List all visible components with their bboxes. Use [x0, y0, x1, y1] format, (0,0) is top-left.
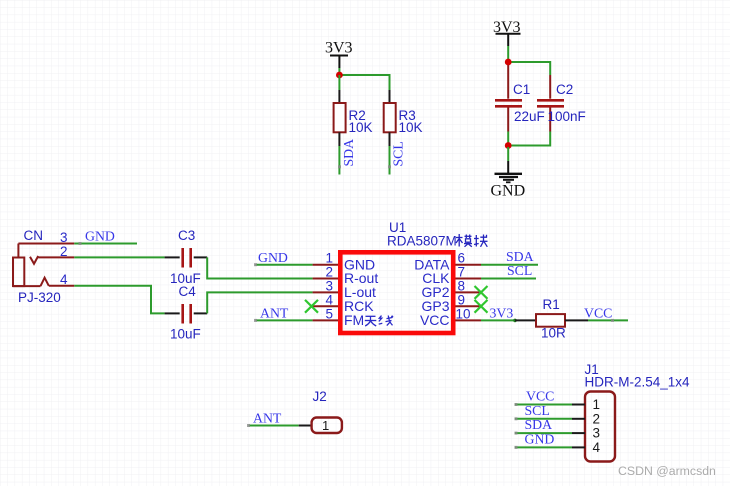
svg-text:ANT: ANT	[253, 411, 282, 426]
junction dot	[336, 72, 343, 79]
ground GND	[491, 161, 526, 200]
wire R3 to net SCL	[389, 146, 391, 175]
wire C3 to U1 pin2	[207, 257, 312, 278]
op module U1 RDA5807M	[340, 220, 487, 333]
pin 8 lead	[456, 291, 482, 293]
resistor R2	[334, 90, 373, 146]
node GND (U1)	[254, 250, 288, 266]
svg-text:7: 7	[458, 265, 466, 280]
svg-text:3V3: 3V3	[325, 40, 353, 57]
pin 6 lead	[456, 264, 482, 266]
no-connect X pin 9	[475, 300, 488, 313]
svg-text:1: 1	[593, 397, 601, 412]
pin 10 lead	[456, 319, 482, 321]
wire C2 bottom to junction	[508, 132, 550, 146]
connector CN (PJ-320)	[13, 228, 74, 305]
no-connect X pin 8	[475, 286, 488, 299]
pin 1 lead	[313, 264, 338, 266]
svg-text:R1: R1	[543, 297, 560, 312]
wire VCC to J1 pin1	[515, 404, 572, 406]
svg-text:1: 1	[326, 251, 334, 266]
svg-text:4: 4	[60, 272, 68, 287]
pin 2 lead	[313, 278, 338, 280]
pin 3 lead	[313, 291, 338, 293]
svg-text:10R: 10R	[541, 326, 566, 341]
resistor R1	[515, 297, 588, 341]
模	[458, 234, 460, 247]
pin 4 lead	[313, 305, 338, 307]
svg-text:2: 2	[593, 411, 601, 426]
node VCC (J1)	[515, 389, 555, 407]
svg-text:CN: CN	[24, 228, 44, 243]
wire CN pin2 to C3	[74, 256, 164, 258]
svg-text:3: 3	[60, 230, 68, 245]
svg-text:CSDN @armcsdn: CSDN @armcsdn	[618, 464, 716, 478]
value label 模块 (module)	[456, 234, 488, 247]
connector J1	[572, 362, 690, 462]
天	[366, 315, 376, 317]
svg-text:C1: C1	[513, 82, 530, 97]
no-connect X pin 4	[305, 300, 318, 313]
wire R2 to net SDA	[338, 146, 340, 175]
junction dot bottom	[505, 142, 512, 149]
svg-text:GND: GND	[491, 183, 526, 200]
svg-text:6: 6	[458, 251, 466, 266]
wire ANT to J2	[249, 425, 299, 427]
wire CN pin4 to C4	[74, 286, 164, 314]
svg-text:FM: FM	[344, 312, 364, 328]
svg-text:VCC: VCC	[420, 312, 450, 328]
connector J2	[299, 389, 342, 433]
junction dot top	[505, 59, 512, 66]
svg-text:22uF: 22uF	[514, 109, 545, 124]
svg-text:SCL: SCL	[507, 263, 532, 278]
capacitor C3	[165, 228, 208, 286]
power symbol 3V3 (C1/C2 rail)	[493, 19, 521, 46]
wire U1 pin7 to SCL	[481, 278, 536, 280]
pin 5 lead	[313, 319, 338, 321]
node ANT (J2)	[247, 411, 282, 428]
wire SCL to J1 pin2	[515, 418, 572, 420]
svg-text:C4: C4	[179, 284, 197, 299]
svg-text:GND: GND	[85, 229, 115, 244]
wire C1 bottom to junction	[507, 132, 509, 148]
wire junction to ground	[507, 147, 509, 161]
pin 7 lead	[456, 278, 482, 280]
svg-text:3: 3	[326, 279, 334, 294]
wire 3V3 to junction	[507, 46, 509, 62]
wire junction down to R2	[338, 75, 340, 90]
node SDA	[338, 139, 356, 168]
wire junction to R3 branch	[339, 75, 389, 90]
svg-text:PJ-320: PJ-320	[18, 290, 61, 305]
svg-text:10uF: 10uF	[170, 327, 201, 342]
svg-text:HDR-M-2.54_1x4: HDR-M-2.54_1x4	[585, 375, 691, 390]
svg-text:1: 1	[322, 418, 329, 433]
wire U1 pin10 to R1	[481, 319, 515, 321]
svg-text:ANT: ANT	[260, 305, 289, 320]
svg-text:100nF: 100nF	[548, 109, 586, 124]
wire GND to J1 pin4	[515, 446, 572, 448]
svg-text:SDA: SDA	[506, 249, 534, 264]
wire R1 to VCC	[588, 319, 628, 321]
node ANT (U1)	[254, 305, 289, 322]
junction 3V3 net	[513, 319, 517, 323]
svg-text:C2: C2	[556, 82, 573, 97]
pin 9 lead	[456, 305, 482, 307]
svg-text:9: 9	[458, 293, 466, 308]
svg-text:SDA: SDA	[525, 417, 553, 432]
wire ANT to U1 pin5	[256, 319, 313, 321]
wire 3V3 rail to junction	[338, 68, 340, 75]
svg-text:2: 2	[326, 265, 334, 280]
svg-text:SCL: SCL	[525, 403, 550, 418]
svg-text:3V3: 3V3	[490, 305, 514, 320]
svg-text:SCL: SCL	[391, 141, 406, 166]
svg-text:3: 3	[593, 426, 601, 441]
svg-text:5: 5	[326, 307, 334, 322]
capacitor C1	[495, 62, 545, 132]
svg-text:4: 4	[593, 440, 601, 455]
node SDA (J1)	[515, 417, 553, 435]
wire C4 to U1 pin3	[207, 292, 312, 313]
wire CN pin3 to GND label	[74, 243, 137, 245]
node SCL	[388, 141, 406, 168]
svg-text:C3: C3	[178, 228, 195, 243]
线	[379, 316, 382, 322]
svg-text:2: 2	[60, 244, 68, 259]
svg-text:GND: GND	[525, 431, 555, 446]
wire U1 pin6 to SDA	[481, 264, 538, 266]
capacitor C2	[537, 75, 586, 132]
node SCL (J1)	[515, 403, 550, 421]
wire GND to U1 pin1	[256, 264, 313, 266]
svg-text:10K: 10K	[349, 120, 373, 135]
svg-text:10K: 10K	[399, 120, 423, 135]
svg-text:8: 8	[458, 279, 466, 294]
node VCC (R1)	[584, 305, 614, 322]
wire SDA to J1 pin3	[515, 432, 572, 434]
svg-text:4: 4	[326, 293, 334, 308]
power symbol 3V3 (R2/R3 rail)	[325, 40, 353, 69]
svg-text:VCC: VCC	[526, 389, 554, 404]
块	[475, 235, 477, 247]
capacitor C4	[165, 284, 208, 342]
svg-text:VCC: VCC	[584, 305, 612, 320]
svg-text:SDA: SDA	[341, 139, 356, 167]
node GND (J1)	[515, 431, 555, 449]
node GND (jack)	[79, 229, 115, 246]
wire junction to C2 top	[508, 62, 550, 75]
svg-text:J2: J2	[313, 389, 327, 404]
svg-text:GND: GND	[258, 250, 288, 265]
svg-text:RDA5807M: RDA5807M	[387, 234, 457, 249]
resistor R3	[384, 90, 423, 146]
svg-text:10: 10	[456, 307, 471, 322]
